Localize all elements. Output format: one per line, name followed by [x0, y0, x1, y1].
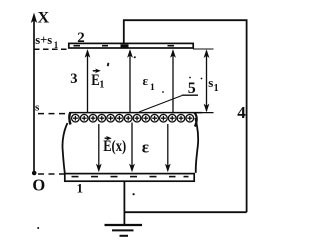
svg-text:1: 1 [214, 83, 219, 94]
svg-text:X: X [38, 10, 50, 27]
svg-text:1: 1 [99, 79, 104, 90]
surface charge row: right end brace [195, 113, 197, 127]
wire from plate 2 to right side [124, 20, 247, 212]
surface charge row: plus circles [72, 114, 194, 122]
svg-text:2: 2 [77, 30, 85, 46]
svg-text:s+s: s+s [35, 33, 52, 47]
origin dot [32, 171, 37, 176]
svg-text:s: s [35, 102, 40, 114]
svg-text:ε: ε [143, 73, 149, 88]
svg-text:s: s [208, 75, 213, 90]
svg-text:O: O [32, 176, 45, 195]
label 5 with underline and leader line [139, 80, 198, 112]
ink specks [37, 56, 202, 229]
label E1 vector [91, 69, 104, 91]
dashed level line s+s1 [34, 48, 68, 50]
wire bottom horizontal [124, 211, 246, 213]
plate 1 (bottom electrode) [65, 174, 194, 182]
field arrow E(x) (middle) [129, 123, 135, 173]
field arrow E1 (middle) [127, 49, 133, 112]
s1 dimension line with arrows [193, 49, 214, 113]
svg-text:E(x): E(x) [103, 138, 126, 155]
svg-text:4: 4 [237, 103, 246, 122]
ground [105, 225, 143, 236]
X axis [31, 13, 37, 174]
wire from plate 1 to ground and right side [123, 182, 125, 224]
surface charge row (node 5): top boundary line [69, 112, 202, 114]
svg-text:1: 1 [54, 40, 59, 50]
svg-text:1: 1 [150, 83, 155, 93]
svg-text:ε: ε [142, 138, 149, 157]
svg-text:1: 1 [77, 181, 84, 196]
surface charge row: left end mark [69, 113, 70, 125]
dielectric left edge (freehand) [62, 123, 67, 173]
field arrow E(x) (right) [165, 124, 171, 172]
svg-text:5: 5 [188, 80, 196, 97]
dashed level line s [38, 113, 69, 115]
label E(x) vector [103, 136, 126, 155]
dielectric right edge (freehand) [195, 118, 198, 173]
field arrow E1 (left) [85, 49, 91, 112]
field arrow E1 (right) [170, 49, 176, 112]
plate 2 (top electrode) [69, 43, 193, 48]
svg-text:3: 3 [70, 71, 77, 87]
dashed line at O level [38, 173, 64, 175]
field arrow E(x) (left) [96, 124, 102, 172]
